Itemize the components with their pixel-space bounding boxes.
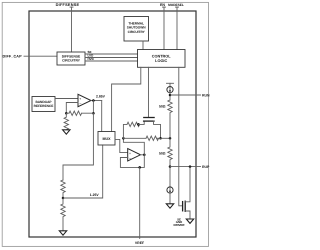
svg-text:1.25V: 1.25V bbox=[90, 193, 100, 197]
node feedback to VREF rail bbox=[138, 166, 141, 169]
wire DIFFSENSE to diffsense circuitry bbox=[71, 7, 73, 52]
node Q2 drain row bbox=[189, 165, 192, 168]
wire control logic to mux bbox=[112, 67, 141, 131]
pin VREF label bbox=[135, 241, 145, 245]
wire A2 feedback wrap bbox=[120, 155, 144, 168]
resistor R2 to ground bbox=[64, 113, 68, 130]
svg-text:DRIVER: DRIVER bbox=[174, 223, 186, 227]
ground G2 bbox=[166, 204, 173, 208]
current source I1 bbox=[167, 82, 174, 84]
resistor R8 50ohm bbox=[168, 138, 172, 166]
node A2 output bbox=[143, 154, 146, 157]
svg-text:VREF: VREF bbox=[135, 241, 145, 245]
node Q1 drain bbox=[159, 137, 162, 140]
wire MODESEL to control logic bbox=[176, 7, 178, 49]
wire bandgap to op-amp A1 bbox=[55, 98, 78, 100]
svg-text:2.85V: 2.85V bbox=[96, 95, 106, 99]
node G bbox=[122, 137, 125, 140]
pin EN label bbox=[160, 3, 165, 7]
node RUN bbox=[169, 94, 172, 97]
svg-text:RUN: RUN bbox=[202, 93, 210, 97]
wire Q1 drain lead bbox=[154, 121, 161, 138]
wire A1 inverting input bbox=[66, 103, 78, 114]
svg-text:MODESEL: MODESEL bbox=[168, 3, 184, 7]
svg-text:DIFFSENSE: DIFFSENSE bbox=[56, 2, 80, 7]
node rail mid bbox=[169, 137, 172, 140]
label 2.85V bbox=[96, 95, 106, 99]
svg-text:HVD: HVD bbox=[88, 57, 95, 61]
node R5 to Q1 bbox=[137, 123, 140, 126]
wire I1 to node RUN bbox=[169, 93, 171, 100]
op-amp A1 bbox=[78, 94, 91, 106]
wire node G up to R5 bbox=[123, 124, 127, 138]
label 1.25V bbox=[90, 193, 100, 197]
bandgap reference block bbox=[32, 97, 55, 112]
svg-text:RUP: RUP bbox=[202, 165, 210, 169]
wire Q2 drain bbox=[185, 167, 190, 202]
transistor Q2 gnd driver bbox=[182, 202, 184, 211]
label SE GND DRIVER bbox=[174, 217, 186, 226]
svg-text:LOGIC: LOGIC bbox=[155, 59, 167, 63]
resistor R4 divider bottom bbox=[61, 198, 65, 231]
wire A1 output to MUX input 1 bbox=[101, 101, 103, 132]
wire A1 feedback vertical bbox=[92, 101, 94, 114]
pin DIFF_CAP label bbox=[3, 55, 23, 59]
pin DIFFSENSE label bbox=[56, 2, 80, 7]
ground G3 bbox=[186, 219, 193, 223]
wire A1 output to node bbox=[91, 100, 102, 102]
resistor R7 50ohm bbox=[168, 100, 172, 138]
wire SE bbox=[85, 53, 138, 55]
resistor R3 divider top bbox=[61, 180, 65, 198]
wire A2 output bbox=[141, 154, 145, 156]
border frame bbox=[2, 2, 208, 246]
svg-text:CIRCUITRY: CIRCUITRY bbox=[62, 59, 81, 63]
wire control logic to fet Q2 gate bbox=[179, 67, 183, 206]
pin DIFFSENSE tick bbox=[70, 6, 73, 8]
control logic block bbox=[138, 50, 186, 68]
wire row B to RUP pin bbox=[170, 166, 201, 168]
wire DIFF_CAP to diffsense circuitry bbox=[24, 55, 57, 57]
svg-text:CIRCUITRY: CIRCUITRY bbox=[128, 30, 146, 34]
wire tap to MUX bbox=[63, 145, 103, 198]
pin MODESEL tick bbox=[176, 6, 179, 8]
wire node G link to A2 output bbox=[123, 138, 144, 155]
svg-text:MUX: MUX bbox=[103, 137, 112, 141]
label 50ohm R7 bbox=[159, 105, 166, 109]
wire HVD bbox=[85, 60, 138, 62]
wire thermal shutdown to control logic bbox=[142, 41, 144, 50]
pin RUP label bbox=[202, 165, 210, 169]
wire EN to control logic bbox=[163, 7, 165, 49]
wire Q2 source bbox=[185, 211, 190, 219]
wire LVD bbox=[85, 57, 138, 59]
pin MODESEL label bbox=[168, 3, 184, 7]
svg-text:50Ω: 50Ω bbox=[159, 105, 166, 109]
IC boundary box bbox=[29, 11, 196, 237]
svg-text:REFERENCE: REFERENCE bbox=[34, 104, 54, 108]
node feedback left bbox=[65, 112, 68, 115]
svg-text:+: + bbox=[79, 97, 81, 101]
resistor R5 bbox=[127, 122, 140, 126]
svg-text:CONTROL: CONTROL bbox=[152, 55, 171, 59]
svg-text:EN: EN bbox=[160, 3, 165, 7]
diffsense circuitry block bbox=[57, 52, 85, 65]
svg-text:+: + bbox=[129, 151, 131, 155]
pin RUN label bbox=[202, 93, 210, 97]
transistor Q1 bbox=[144, 117, 154, 119]
wire RUN row bbox=[170, 94, 201, 96]
wire control logic to fet Q1 gate bbox=[148, 67, 150, 117]
svg-text:DIFF_CAP: DIFF_CAP bbox=[3, 55, 23, 59]
wire to VREF pin bbox=[139, 167, 141, 238]
wire Q1 source lead bbox=[139, 121, 145, 124]
svg-text:50Ω: 50Ω bbox=[159, 151, 166, 155]
ground G1 bbox=[63, 130, 70, 134]
node 1.25V tap bbox=[62, 197, 65, 200]
label 50ohm R8 bbox=[159, 151, 166, 155]
ground G4 bbox=[59, 231, 66, 235]
node A1 output bbox=[92, 99, 95, 102]
node feedback right bbox=[92, 112, 95, 115]
node row B left bbox=[169, 165, 172, 168]
wire 2.85V rail to divider bbox=[63, 113, 93, 180]
mux block bbox=[98, 132, 115, 146]
pin EN tick bbox=[163, 6, 166, 8]
resistor R6 bbox=[146, 136, 159, 140]
thermal shutdown block bbox=[124, 17, 149, 42]
wire row R6 bbox=[123, 137, 146, 139]
current source I2 bbox=[169, 167, 171, 188]
error amp A2 bbox=[128, 149, 141, 161]
resistor R1 feedback bbox=[69, 111, 82, 115]
wire mux out to error amp bbox=[115, 139, 128, 152]
